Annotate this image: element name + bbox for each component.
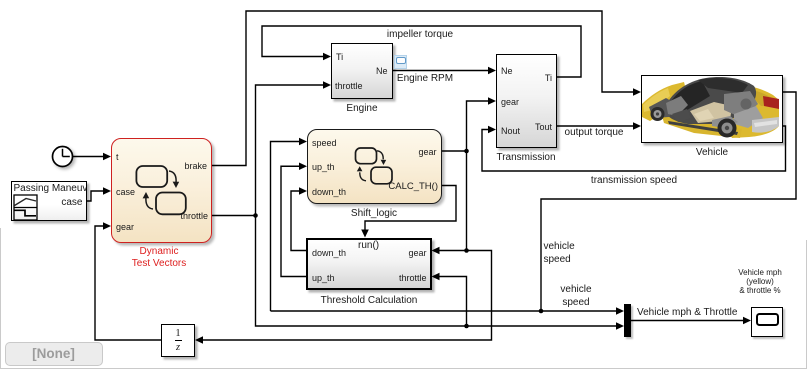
front mechanical clutter — [649, 98, 676, 118]
annotation transmission speed — [584, 175, 684, 187]
engine machinery grays — [724, 91, 758, 118]
test point icon on Engine output — [394, 55, 408, 69]
wire CALC_TH to run trigger — [361, 186, 456, 238]
wire vehicle speed horizontal to mux — [271, 307, 625, 315]
wire brake to Vehicle — [212, 11, 641, 166]
dark canopy — [664, 77, 756, 124]
wire throttle down to mux — [256, 216, 625, 330]
node junction throttle low — [464, 324, 469, 329]
wire gear to unit delay — [195, 251, 492, 344]
block Transmission — [496, 54, 557, 148]
car illustration — [642, 76, 781, 141]
annotation vehicle speed (upper) — [544, 241, 604, 266]
wire throttle up to Engine — [256, 81, 332, 215]
wire impeller torque Ti to Engine — [262, 26, 581, 77]
wire vehicle speed drop — [541, 92, 796, 311]
wire output torque — [557, 122, 641, 130]
label Threshold Calculation — [308, 295, 430, 307]
sill dark stripe — [668, 121, 738, 135]
canvas edge left — [0, 228, 1, 368]
label Transmission — [476, 152, 576, 164]
block Dynamic Test Vectors (Stateflow chart) — [111, 138, 212, 243]
wire gear from Shift_logic — [442, 150, 467, 152]
annotation vehicle speed (lower) — [546, 283, 606, 309]
label Vehicle mph & Throttle — [637, 307, 737, 319]
wire clock to t — [73, 153, 111, 161]
wire throttle branch to Threshold — [432, 273, 467, 326]
node junction vehicle speed — [539, 309, 544, 314]
wire transmission speed feedback — [482, 126, 786, 171]
wire Engine RPM — [393, 67, 497, 75]
front fender yellow — [642, 82, 688, 121]
node junction throttle — [253, 213, 258, 218]
node junction gear low — [464, 248, 469, 253]
annotation impeller torque — [370, 29, 470, 41]
canvas edge right — [806, 240, 807, 368]
silver rear bumper — [752, 117, 779, 133]
label Engine — [312, 103, 412, 115]
wire throttle from chart — [212, 215, 256, 217]
beige interior — [690, 102, 732, 123]
rear wheel — [718, 119, 737, 138]
block Vehicle (car image) — [641, 75, 783, 143]
windshield — [668, 81, 710, 112]
node junction gear out — [464, 149, 469, 154]
annotation [None] — [5, 342, 103, 367]
wire unit delay to gear input — [95, 222, 161, 340]
block Mux Vehicle mph & Throttle — [624, 304, 631, 337]
wire gear down — [466, 151, 468, 251]
roof band — [698, 78, 748, 93]
label Dynamic Test Vectors — [109, 246, 209, 270]
rear body yellow — [722, 85, 779, 138]
wire mux to scope — [631, 317, 751, 325]
block Passing Maneuver (Signal Editor) — [11, 181, 87, 221]
front wheel — [651, 107, 665, 121]
block Shift_logic (Stateflow chart) — [307, 129, 442, 204]
annotation Engine RPM — [375, 73, 475, 85]
wire up_th feedback — [281, 162, 307, 276]
sill yellow diagonal — [662, 116, 742, 138]
wire gear to Threshold — [432, 247, 467, 255]
block Unit Delay 1/z — [161, 324, 195, 357]
annotation output torque — [544, 127, 644, 139]
block Scope — [751, 307, 783, 337]
block Threshold Calculation — [306, 238, 432, 290]
wire gear up to Transmission — [467, 97, 497, 151]
label Shift_logic — [324, 208, 424, 220]
block Engine — [331, 43, 393, 100]
wire vehicle speed riser to Shift_logic — [271, 138, 308, 311]
block Clock — [53, 147, 73, 167]
red tail stripe — [763, 96, 779, 109]
wire down_th feedback — [291, 187, 307, 250]
label Vehicle mph (yellow) & throttle % — [710, 268, 807, 296]
canvas edge bottom — [0, 368, 807, 369]
wire case out of Passing Maneuver — [87, 187, 112, 201]
label Vehicle — [662, 147, 762, 159]
